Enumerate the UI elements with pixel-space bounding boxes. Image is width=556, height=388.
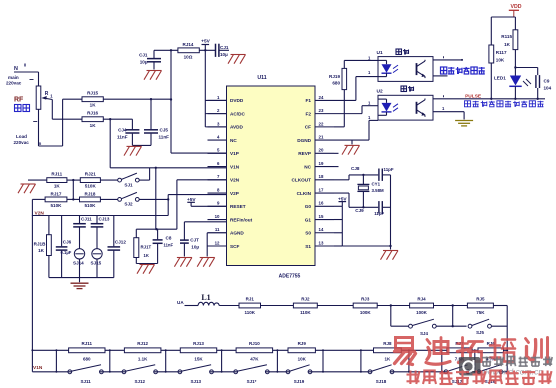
svg-text:V1P: V1P bbox=[230, 151, 239, 156]
svg-text:CF: CF bbox=[305, 125, 311, 130]
svg-text:VDD: VDD bbox=[511, 4, 522, 10]
svg-text:CJ13: CJ13 bbox=[99, 217, 110, 222]
svg-text:100K: 100K bbox=[416, 310, 428, 315]
svg-text:15K: 15K bbox=[194, 356, 203, 361]
svg-text:10K: 10K bbox=[496, 57, 505, 62]
svg-text:10µ: 10µ bbox=[220, 52, 228, 57]
svg-text:16: 16 bbox=[319, 201, 324, 206]
svg-text:RESET: RESET bbox=[230, 204, 246, 209]
svg-text:RJ8: RJ8 bbox=[383, 341, 392, 346]
svg-text:F2: F2 bbox=[306, 111, 312, 116]
svg-text:CJ1: CJ1 bbox=[139, 53, 148, 58]
svg-text:CJ4: CJ4 bbox=[118, 128, 127, 133]
svg-text:DVDD: DVDD bbox=[230, 98, 244, 103]
svg-text:ADE7755: ADE7755 bbox=[279, 274, 301, 280]
svg-text:18: 18 bbox=[319, 174, 324, 179]
svg-text:DGND: DGND bbox=[297, 138, 311, 143]
svg-text:11pF: 11pF bbox=[374, 211, 384, 216]
svg-text:RJ14: RJ14 bbox=[183, 42, 194, 47]
svg-text:SJ1: SJ1 bbox=[124, 182, 133, 187]
svg-text:RJ1: RJ1 bbox=[246, 296, 255, 301]
svg-text:SJ5: SJ5 bbox=[476, 330, 484, 335]
svg-text:SJ15: SJ15 bbox=[91, 261, 102, 266]
svg-text:20: 20 bbox=[319, 148, 324, 153]
svg-text:SJ13: SJ13 bbox=[190, 379, 201, 384]
svg-text:RJ13: RJ13 bbox=[193, 341, 204, 346]
svg-text:1K: 1K bbox=[144, 253, 149, 258]
svg-text:14: 14 bbox=[319, 227, 324, 232]
svg-text:AVDD: AVDD bbox=[230, 125, 244, 130]
svg-text:V2P: V2P bbox=[230, 191, 239, 196]
svg-text:N: N bbox=[14, 66, 18, 72]
svg-text:17: 17 bbox=[319, 187, 324, 192]
svg-text:RJ11: RJ11 bbox=[51, 171, 62, 176]
svg-text:21: 21 bbox=[319, 135, 324, 140]
svg-text:PULSE: PULSE bbox=[465, 94, 482, 100]
svg-text:11nF: 11nF bbox=[159, 134, 170, 139]
svg-text:11nF: 11nF bbox=[117, 134, 128, 139]
svg-text:REVP: REVP bbox=[298, 151, 311, 156]
svg-text:RJ3: RJ3 bbox=[361, 296, 370, 301]
svg-text:CJ1: CJ1 bbox=[220, 45, 229, 50]
svg-text:RJ19: RJ19 bbox=[329, 74, 340, 79]
svg-text:CY1: CY1 bbox=[372, 182, 381, 187]
svg-text:+5V: +5V bbox=[187, 197, 196, 203]
svg-text:RJ18: RJ18 bbox=[85, 192, 96, 197]
svg-text:SJ1*: SJ1* bbox=[247, 379, 257, 384]
svg-text:main: main bbox=[8, 75, 19, 80]
svg-text:+5V: +5V bbox=[201, 39, 210, 45]
svg-text:CJ8: CJ8 bbox=[351, 166, 360, 171]
svg-text:R115: R115 bbox=[501, 34, 512, 39]
svg-text:Load: Load bbox=[16, 134, 27, 139]
svg-text:RJ4: RJ4 bbox=[417, 296, 426, 301]
svg-text:U1: U1 bbox=[377, 50, 383, 56]
svg-text:0.1µF: 0.1µF bbox=[61, 250, 72, 255]
svg-text:1K: 1K bbox=[385, 356, 392, 361]
svg-text:10Ω: 10Ω bbox=[184, 55, 193, 60]
svg-text:10µ: 10µ bbox=[191, 245, 199, 250]
svg-text:R: R bbox=[45, 91, 49, 97]
svg-text:S0: S0 bbox=[305, 231, 311, 236]
svg-text:CLKOUT: CLKOUT bbox=[291, 178, 311, 183]
svg-text:SJ14: SJ14 bbox=[73, 261, 84, 266]
svg-text:RJ16: RJ16 bbox=[87, 110, 98, 115]
svg-text:3.58M: 3.58M bbox=[372, 188, 385, 193]
svg-text:100K: 100K bbox=[360, 310, 372, 315]
svg-text:RF: RF bbox=[14, 97, 24, 104]
svg-text:47K: 47K bbox=[250, 356, 259, 361]
svg-text:24: 24 bbox=[319, 95, 324, 100]
svg-text:RJ12: RJ12 bbox=[137, 341, 148, 346]
svg-text:SJ18: SJ18 bbox=[376, 379, 387, 384]
svg-text:SJ2: SJ2 bbox=[124, 202, 133, 207]
svg-text:AGND: AGND bbox=[230, 231, 244, 236]
svg-text:RJ11: RJ11 bbox=[82, 341, 93, 346]
svg-text:CJ6: CJ6 bbox=[63, 240, 72, 245]
svg-text:CJ11: CJ11 bbox=[81, 217, 92, 222]
svg-text:R117: R117 bbox=[496, 50, 507, 55]
svg-text:1K: 1K bbox=[38, 248, 45, 253]
svg-text:II: II bbox=[24, 63, 26, 68]
svg-text:REFin/out: REFin/out bbox=[230, 217, 253, 222]
svg-text:510K: 510K bbox=[85, 184, 97, 189]
svg-text:SJ4: SJ4 bbox=[420, 331, 428, 336]
svg-text:SJ12: SJ12 bbox=[135, 379, 146, 384]
svg-text:680: 680 bbox=[332, 81, 340, 86]
svg-text:CJ9: CJ9 bbox=[355, 208, 364, 213]
svg-text:RJ9: RJ9 bbox=[298, 341, 307, 346]
svg-text:220vac: 220vac bbox=[6, 81, 22, 86]
svg-text:V1N: V1N bbox=[33, 365, 43, 371]
svg-text:1K: 1K bbox=[90, 123, 97, 128]
svg-text:U11: U11 bbox=[257, 75, 266, 81]
svg-text:NC: NC bbox=[230, 138, 237, 143]
svg-text:1K: 1K bbox=[504, 42, 511, 47]
svg-text:10µ: 10µ bbox=[140, 60, 148, 65]
svg-text:11: 11 bbox=[215, 227, 220, 232]
svg-text:23: 23 bbox=[319, 108, 324, 113]
svg-text:11pF: 11pF bbox=[384, 167, 394, 172]
svg-text:RJ1T: RJ1T bbox=[141, 244, 152, 249]
svg-text:75K: 75K bbox=[476, 310, 485, 315]
svg-text:15: 15 bbox=[319, 214, 324, 219]
svg-text:10: 10 bbox=[215, 214, 220, 219]
svg-text:G0: G0 bbox=[305, 204, 312, 209]
svg-text:RJ2: RJ2 bbox=[301, 296, 310, 301]
svg-text:CLKIN: CLKIN bbox=[297, 191, 312, 196]
svg-text:RJ10: RJ10 bbox=[249, 341, 260, 346]
svg-text:CJ5: CJ5 bbox=[160, 128, 169, 133]
svg-text:10K: 10K bbox=[298, 356, 307, 361]
svg-text:RJ5: RJ5 bbox=[476, 296, 485, 301]
svg-text:SJ11: SJ11 bbox=[80, 379, 91, 384]
svg-text:11nF: 11nF bbox=[164, 243, 174, 248]
svg-text:1K: 1K bbox=[54, 184, 61, 189]
svg-text:RJ17: RJ17 bbox=[51, 192, 62, 197]
svg-text:L1: L1 bbox=[201, 293, 210, 302]
svg-text:680: 680 bbox=[83, 356, 91, 361]
svg-text:n: n bbox=[39, 141, 42, 146]
svg-text:1.1K: 1.1K bbox=[138, 356, 148, 361]
svg-text:C8: C8 bbox=[166, 236, 172, 241]
svg-text:AC/DC: AC/DC bbox=[230, 111, 245, 116]
svg-text:220vac: 220vac bbox=[14, 140, 30, 145]
svg-text:104: 104 bbox=[544, 85, 552, 90]
svg-text:F1: F1 bbox=[306, 98, 312, 103]
svg-text:CJ12: CJ12 bbox=[115, 240, 126, 245]
svg-text:19: 19 bbox=[319, 161, 324, 166]
svg-text:510K: 510K bbox=[85, 203, 97, 208]
svg-text:RJ1B: RJ1B bbox=[34, 241, 46, 246]
svg-text:110K: 110K bbox=[300, 310, 311, 315]
svg-text:U2: U2 bbox=[377, 89, 383, 95]
svg-text:V2N: V2N bbox=[230, 178, 240, 183]
svg-text:C9: C9 bbox=[544, 78, 550, 83]
svg-text:1K: 1K bbox=[90, 103, 97, 108]
svg-text:13: 13 bbox=[319, 240, 324, 245]
svg-text:CJT: CJT bbox=[190, 238, 199, 243]
svg-text:S1: S1 bbox=[305, 244, 311, 249]
svg-text:22: 22 bbox=[319, 121, 324, 126]
svg-text:SJ19: SJ19 bbox=[294, 379, 305, 384]
svg-text:RJ21: RJ21 bbox=[85, 171, 96, 176]
svg-text:NC: NC bbox=[304, 164, 311, 169]
svg-text:510K: 510K bbox=[51, 203, 63, 208]
svg-text:LED1: LED1 bbox=[494, 75, 506, 80]
svg-text:V1N: V1N bbox=[230, 164, 240, 169]
svg-text:110K: 110K bbox=[244, 310, 255, 315]
svg-text:12: 12 bbox=[215, 240, 220, 245]
svg-text:RJ15: RJ15 bbox=[87, 90, 98, 95]
svg-text:UA: UA bbox=[177, 300, 184, 305]
svg-text:SCF: SCF bbox=[230, 244, 240, 249]
svg-text:G1: G1 bbox=[305, 217, 312, 222]
